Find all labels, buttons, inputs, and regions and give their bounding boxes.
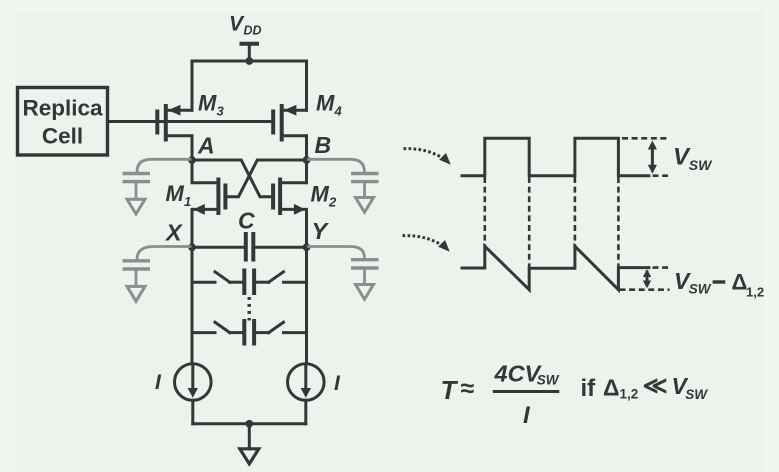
svg-text:DD: DD [244,24,262,38]
svg-text:≈: ≈ [461,375,475,403]
node A [188,133,215,164]
VDD label [229,13,262,38]
junction dot at bottom rail [245,420,253,428]
delta arrow [643,269,651,288]
svg-text:SW: SW [537,373,560,388]
current source I (left) [175,364,212,401]
node B [303,132,332,164]
square waveform [462,138,649,175]
svg-text:Y: Y [312,218,330,244]
ground [240,424,259,464]
wire: cross-coupling A to gate of M2 [192,160,273,197]
VDD supply T-bar [240,44,260,61]
svg-text:C: C [238,208,255,234]
svg-text:if: if [581,375,597,402]
junction dot at VDD rail [245,57,253,65]
svg-text:M: M [166,181,185,206]
label C [238,208,255,234]
wire: replica cell output to gates of M3/M4 [108,120,274,123]
svg-text:A: A [197,133,215,159]
svg-text:4CV: 4CV [494,361,543,387]
current source I (right) [288,364,325,401]
label I (right) [334,372,341,395]
switched capacitor row 2 [192,319,307,346]
gray parasitic capacitor at node Y [309,247,379,300]
label M1 [166,181,192,209]
label Vsw [673,144,713,173]
wire: left current source to bottom rail [191,400,194,424]
svg-text:M: M [311,182,330,207]
formula condition [581,373,709,403]
Vsw arrow [648,141,657,174]
label I (left) [155,371,162,394]
svg-text:2: 2 [328,195,337,210]
transistor M2 (NMOS) [273,160,306,247]
transistor M4 (PMOS) [273,104,306,160]
formula T = 4CVsw/I [441,361,560,430]
switched capacitor row 1 [192,269,307,296]
svg-text:Δ: Δ [732,269,748,294]
svg-text:≪: ≪ [643,373,668,400]
gray parasitic capacitor at node B [309,159,379,212]
svg-text:Cell: Cell [42,124,83,149]
node Y [303,218,330,251]
wire: X column down to current source [191,247,194,364]
label M2 [311,182,338,210]
svg-text:1,2: 1,2 [746,284,764,299]
sawtooth waveform [462,246,649,290]
svg-text:T: T [441,375,459,405]
dotted arrow to square wave [404,149,451,165]
label M3 [198,91,225,119]
Replica Cell box [18,88,108,156]
dotted arrow to sawtooth wave [403,236,450,252]
wire: cross-coupling B to gate of M1 [225,160,306,197]
svg-text:SW: SW [689,157,713,173]
svg-text:1,2: 1,2 [620,387,639,402]
wire: top supply rail [192,61,307,110]
svg-text:M: M [316,91,335,116]
wire: Y column down to current source [305,247,308,364]
svg-text:M: M [198,91,217,116]
svg-text:SW: SW [689,282,712,297]
dashed lines at sawtooth levels [620,268,670,290]
svg-text:4: 4 [334,104,343,119]
capacitor C between X and Y [192,232,307,262]
svg-text:B: B [315,132,332,158]
wire: bottom rail [193,422,306,425]
transistor M1 (NMOS) [192,160,225,247]
gray parasitic capacitor at node X [123,247,191,302]
label M4 [316,91,343,119]
svg-text:3: 3 [217,104,225,119]
node X [164,220,196,252]
svg-text:1: 1 [184,194,191,209]
dashed timing lines [485,138,670,289]
svg-text:Δ: Δ [603,375,620,401]
gray parasitic capacitor at node A [123,159,191,214]
transistor M3 (PMOS) [157,104,192,160]
dotted continuation between switch rows [247,297,250,321]
svg-text:Replica: Replica [22,96,103,121]
wire: right current source to bottom rail [304,400,307,424]
svg-text:SW: SW [685,387,708,402]
svg-text:X: X [164,220,183,246]
label Vsw - Delta12 [674,268,764,299]
